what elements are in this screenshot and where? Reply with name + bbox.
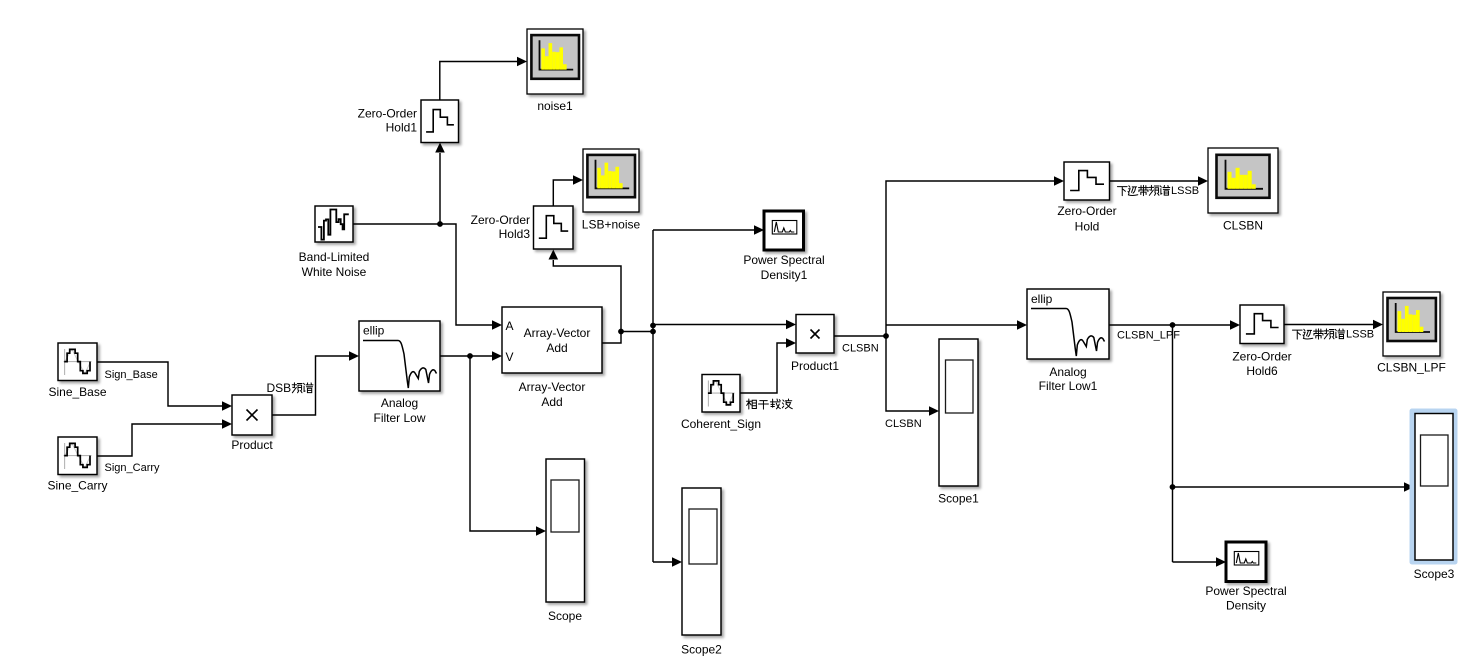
wire junction to Scope bbox=[470, 356, 546, 536]
signal label 下边带频谱LSSB a bbox=[1117, 185, 1199, 197]
svg-text:CLSBN: CLSBN bbox=[1223, 219, 1263, 233]
svg-text:Sine_Base: Sine_Base bbox=[48, 385, 106, 399]
svg-text:Density: Density bbox=[1226, 599, 1266, 613]
wire Band-Limited White Noise to Array-Vector Add A input bbox=[353, 224, 502, 330]
filter Analog Filter Low1 bbox=[1027, 289, 1109, 393]
display noise1 bbox=[527, 29, 583, 113]
node junction bus lower bbox=[650, 329, 656, 335]
display Power Spectral Density1 bbox=[743, 211, 824, 282]
wire branch to bus bbox=[621, 331, 653, 333]
multiplier Product bbox=[231, 395, 273, 452]
wire Sine_Carry to Product input 2 bbox=[97, 419, 232, 456]
svg-text:ellip: ellip bbox=[363, 324, 385, 338]
block Zero-Order Hold3 bbox=[471, 206, 573, 249]
node junction white-noise output bbox=[437, 221, 443, 227]
wire junction to Scope3 bbox=[1173, 482, 1415, 492]
svg-text:Sine_Carry: Sine_Carry bbox=[47, 479, 107, 493]
selection highlight Scope3 bbox=[1410, 409, 1458, 565]
svg-text:Hold3: Hold3 bbox=[499, 227, 531, 241]
wire bus to Product1 input 1 bbox=[653, 320, 796, 330]
svg-text:LSSB: LSSB bbox=[1346, 329, 1374, 341]
scope Scope2 bbox=[681, 488, 722, 656]
svg-text:Add: Add bbox=[546, 341, 567, 355]
wire Coherent_Sign to Product1 input 2 bbox=[740, 338, 796, 393]
wire Zero-Order Hold to CLSBN display bbox=[1110, 176, 1209, 186]
wire bus vertical bbox=[652, 230, 654, 562]
scope Scope1 bbox=[938, 339, 979, 506]
wire junction to Analog Filter Low1 bbox=[886, 320, 1027, 330]
signal label CLSBN a bbox=[842, 343, 879, 355]
wire junction down to Scope1 bbox=[886, 336, 939, 416]
wire Product1 output to junction bbox=[834, 335, 886, 337]
wire bus to Scope2 bbox=[653, 557, 682, 567]
wire Product to Analog Filter Low bbox=[272, 351, 359, 415]
svg-text:Analog: Analog bbox=[1049, 365, 1086, 379]
svg-text:Array-Vector: Array-Vector bbox=[519, 380, 586, 394]
svg-text:Analog: Analog bbox=[381, 396, 418, 410]
svg-text:CLSBN_LPF: CLSBN_LPF bbox=[1117, 330, 1180, 342]
signal label CLSBN b bbox=[885, 418, 922, 430]
svg-text:Sign_Base: Sign_Base bbox=[105, 369, 158, 381]
multiplier Product1 bbox=[791, 315, 839, 374]
filter Analog Filter Low bbox=[359, 321, 440, 425]
svg-text:Coherent_Sign: Coherent_Sign bbox=[681, 417, 761, 431]
wire junction to Power Spectral Density bbox=[1173, 557, 1227, 567]
svg-text:DSB: DSB bbox=[267, 381, 292, 395]
block Array-Vector Add bbox=[502, 307, 602, 409]
svg-text:Hold6: Hold6 bbox=[1246, 364, 1278, 378]
wire Zero-Order Hold6 to CLSBN_LPF display bbox=[1284, 320, 1383, 330]
signal label Sign_Base bbox=[105, 369, 158, 381]
wire Zero-Order Hold3 to LSB+noise bbox=[553, 175, 583, 206]
svg-text:Zero-Order: Zero-Order bbox=[1057, 204, 1116, 218]
signal label 相干载波 bbox=[747, 399, 793, 409]
svg-text:Scope: Scope bbox=[548, 609, 582, 623]
wire Zero-Order Hold1 to noise1 bbox=[440, 57, 527, 100]
source Sine_Base bbox=[48, 343, 106, 399]
scope Scope bbox=[546, 459, 585, 623]
wire bus to Power Spectral Density1 bbox=[653, 225, 764, 235]
block Zero-Order Hold1 bbox=[358, 100, 459, 143]
display LSB+noise bbox=[582, 149, 641, 232]
svg-text:Add: Add bbox=[541, 395, 562, 409]
svg-text:Sign_Carry: Sign_Carry bbox=[105, 462, 161, 474]
node junction filter output bbox=[467, 353, 473, 359]
node junction bus upper bbox=[650, 323, 656, 329]
svg-text:A: A bbox=[506, 319, 514, 333]
svg-text:V: V bbox=[506, 350, 514, 364]
svg-text:LSB+noise: LSB+noise bbox=[582, 218, 641, 232]
scope Scope3 bbox=[1414, 414, 1455, 582]
svg-text:Zero-Order: Zero-Order bbox=[358, 107, 417, 121]
svg-text:CLSBN_LPF: CLSBN_LPF bbox=[1377, 361, 1446, 375]
source Band-Limited White Noise bbox=[299, 206, 370, 279]
svg-text:Product: Product bbox=[231, 438, 273, 452]
svg-text:Power Spectral: Power Spectral bbox=[1205, 584, 1286, 598]
display CLSBN bbox=[1208, 148, 1278, 233]
block Zero-Order Hold6 bbox=[1232, 305, 1291, 378]
svg-text:Power Spectral: Power Spectral bbox=[743, 253, 824, 267]
wire Analog Filter Low1 to Zero-Order Hold6 bbox=[1109, 320, 1240, 330]
signal label CLSBN_LPF bbox=[1117, 330, 1180, 342]
svg-text:CLSBN: CLSBN bbox=[885, 418, 922, 430]
svg-text:noise1: noise1 bbox=[537, 99, 573, 113]
signal label 下边带频谱LSSB b bbox=[1292, 329, 1374, 341]
svg-text:Scope2: Scope2 bbox=[681, 643, 722, 656]
signal label Sign_Carry bbox=[105, 462, 161, 474]
node junction product1 output bbox=[883, 333, 889, 339]
svg-text:LSSB: LSSB bbox=[1171, 185, 1199, 197]
block Zero-Order Hold bbox=[1057, 162, 1116, 234]
svg-text:Density1: Density1 bbox=[761, 268, 808, 282]
svg-text:Hold: Hold bbox=[1075, 220, 1100, 234]
source Sine_Carry bbox=[47, 437, 107, 493]
svg-text:Product1: Product1 bbox=[791, 359, 839, 373]
svg-text:CLSBN: CLSBN bbox=[842, 343, 879, 355]
svg-text:Scope3: Scope3 bbox=[1414, 567, 1455, 581]
svg-text:Zero-Order: Zero-Order bbox=[471, 213, 530, 227]
svg-text:Hold1: Hold1 bbox=[386, 121, 418, 135]
node junction filter1 output bbox=[1170, 322, 1176, 328]
display CLSBN_LPF bbox=[1377, 292, 1446, 375]
wire junction up to Zero-Order Hold1 bbox=[435, 143, 445, 225]
svg-text:ellip: ellip bbox=[1031, 292, 1053, 306]
svg-text:Scope1: Scope1 bbox=[938, 492, 979, 506]
node junction on hold3 feed bbox=[618, 329, 624, 335]
source Coherent_Sign bbox=[681, 375, 761, 432]
svg-text:Zero-Order: Zero-Order bbox=[1232, 350, 1291, 364]
svg-text:Filter Low1: Filter Low1 bbox=[1039, 379, 1098, 393]
wire junction up to Zero-Order Hold bbox=[886, 176, 1064, 336]
svg-text:Filter Low: Filter Low bbox=[373, 411, 425, 425]
svg-text:Band-Limited: Band-Limited bbox=[299, 250, 370, 264]
svg-text:Array-Vector: Array-Vector bbox=[524, 326, 591, 340]
svg-text:White Noise: White Noise bbox=[302, 265, 367, 279]
wire Sine_Base to Product input 1 bbox=[97, 362, 232, 411]
signal label DSB频谱 bbox=[267, 381, 313, 395]
wire Analog Filter Low to Array-Vector Add V input bbox=[440, 351, 502, 361]
wire Array-Vector Add output to Zero-Order Hold3 bbox=[549, 250, 622, 344]
wire junction down right side bbox=[1172, 325, 1174, 562]
display Power Spectral Density bbox=[1205, 542, 1286, 613]
node junction scope3 feed bbox=[1170, 484, 1176, 490]
